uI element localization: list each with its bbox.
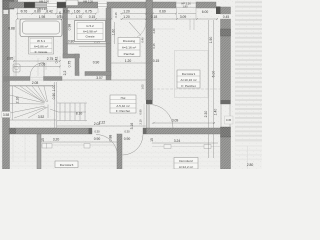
left exterior wall — [3, 0, 10, 169]
window opening x47-57 — [47, 2, 57, 8]
bathroom south wall west seg — [9, 77, 30, 81]
top wall segment x152-176 — [153, 2, 177, 8]
hall top boundary line — [62, 79, 146, 81]
top wall segment x107-146 — [107, 2, 146, 8]
bedroom bed outline — [175, 51, 209, 98]
dark pier segment — [24, 2, 35, 8]
right wall cap — [221, 100, 231, 104]
left vertical dims — [15, 20, 17, 76]
bedroom vertical dims — [209, 20, 214, 158]
thick interior wall right part — [143, 128, 221, 134]
bathroom east wall V1 — [63, 8, 68, 58]
right neighbour sheet ruled stripes — [235, 2, 262, 140]
corner hatch extension — [14, 0, 18, 8]
drain symbol — [42, 144, 47, 149]
label box dressing — [118, 38, 140, 57]
bedroom door leaf — [147, 105, 150, 129]
dimension line top row1 — [17, 11, 218, 19]
right wall window block — [221, 29, 231, 36]
double door arcs bottom — [96, 135, 118, 157]
bathroom door arc — [30, 63, 44, 77]
wall end cap left of opening — [89, 128, 93, 134]
bedroom dashed ceiling line — [153, 88, 221, 90]
bottom-left room west wall — [37, 134, 41, 169]
V4 end cap — [146, 100, 153, 104]
label box bedroom 2 — [174, 158, 198, 170]
top-left chimney block — [3, 0, 14, 9]
bottom door dims — [93, 129, 101, 134]
wc door gap ticks — [79, 72, 85, 77]
label on right wall above junction — [225, 116, 234, 124]
subtle gray veil — [0, 0, 262, 169]
bottom-left room furniture line — [42, 144, 118, 146]
winder stair fan — [10, 82, 57, 128]
bottom room dims — [42, 141, 118, 143]
bedroom door arc — [150, 105, 174, 129]
wc top wall lines — [66, 44, 111, 46]
bathroom door threshold — [30, 77, 44, 80]
junction block bottom-left — [9, 128, 16, 134]
right exterior wall upper — [221, 7, 231, 104]
paper background — [0, 0, 262, 169]
extension lines below top wall — [18, 8, 197, 30]
bathtub — [20, 19, 62, 37]
dressing dim — [111, 62, 152, 64]
window x35-47 — [35, 3, 47, 8]
french window opening x176-196 — [176, 3, 196, 7]
top wall mid segment — [57, 2, 98, 8]
chimney bump above wall — [66, 0, 78, 6]
furniture marker 4 — [204, 145, 211, 149]
label box bedroom 3 — [55, 161, 78, 168]
right exterior wall lower — [221, 136, 231, 169]
label box bedroom 1 — [177, 70, 200, 88]
bathroom extension lines — [14, 56, 60, 76]
dressing east wall V4 — [146, 0, 153, 100]
right wall junction block — [221, 127, 231, 137]
ticks row1 — [16, 13, 218, 21]
top exterior wall — [9, 2, 47, 8]
right wall opening jambs — [221, 104, 230, 127]
straight stair flight — [50, 103, 87, 121]
top-right corner block — [216, 7, 221, 15]
wall end cap — [143, 128, 147, 134]
faint extension lines bottom-left — [13, 134, 25, 162]
jog wall H1 — [63, 54, 80, 58]
window opening x98-107 — [98, 2, 107, 8]
label box hall — [110, 95, 136, 113]
dressing door leaf and arc — [129, 22, 141, 36]
white patch in left wall — [4, 10, 9, 14]
bottom centre wall — [117, 134, 122, 169]
label box G 5.2 — [75, 21, 106, 42]
dark pier segment 2 — [57, 2, 66, 8]
furniture marker 3 — [164, 145, 171, 149]
furniture marker 1 — [46, 144, 52, 149]
faint vertical line lower right — [247, 146, 249, 169]
jog wall V2 — [75, 54, 79, 76]
bottom-right room furniture line — [152, 146, 220, 148]
bathroom south wall east seg — [44, 77, 63, 81]
wc east wall V3 — [106, 8, 111, 80]
bathroom dim lines — [13, 60, 61, 68]
top wall segment x196-216 — [196, 2, 216, 8]
left wall label 3.58 — [2, 112, 11, 118]
thick interior wall left part — [9, 128, 92, 134]
dim beside bedroom door — [143, 104, 145, 128]
furniture marker 2 — [84, 144, 90, 149]
label box bathroom — [29, 37, 54, 54]
faint ruling bottom band — [10, 153, 220, 167]
toilet — [13, 64, 20, 72]
0.45 label on right wall — [220, 14, 233, 19]
junction block left wall — [3, 76, 10, 82]
wc south wall — [85, 72, 111, 76]
